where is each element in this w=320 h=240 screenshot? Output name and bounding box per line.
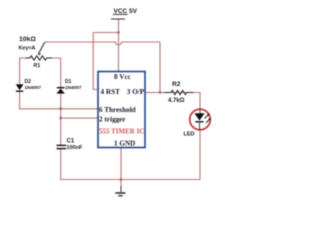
svg-text:C1: C1	[67, 139, 75, 145]
svg-text:R2: R2	[172, 81, 181, 88]
svg-text:1N4007: 1N4007	[25, 85, 42, 90]
svg-text:100nF: 100nF	[66, 145, 83, 151]
svg-text:6 Threshold: 6 Threshold	[99, 106, 136, 114]
svg-text:VCC 5V: VCC 5V	[114, 8, 138, 15]
svg-text:10kΩ: 10kΩ	[19, 36, 36, 43]
svg-text:2 trigger: 2 trigger	[99, 115, 126, 123]
svg-text:R1: R1	[34, 63, 41, 69]
svg-text:555 TIMER IC: 555 TIMER IC	[99, 127, 144, 135]
svg-text:4.7kΩ: 4.7kΩ	[168, 98, 185, 104]
svg-text:LED: LED	[184, 132, 195, 138]
svg-text:3 O/P: 3 O/P	[127, 88, 145, 96]
svg-text:1 GND: 1 GND	[114, 140, 135, 148]
svg-text:8 Vcc: 8 Vcc	[114, 73, 132, 81]
svg-text:Key=A: Key=A	[19, 45, 36, 51]
svg-text:4 RST: 4 RST	[101, 88, 121, 96]
svg-text:1N4007: 1N4007	[65, 85, 82, 90]
